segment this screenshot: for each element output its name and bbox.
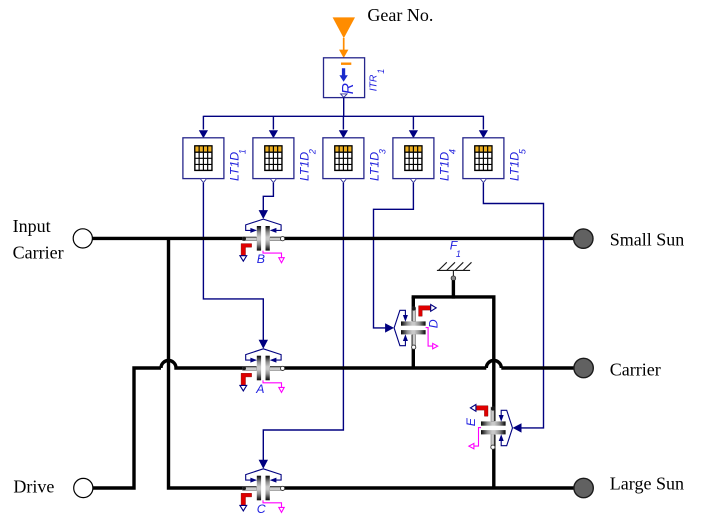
- shaft fixed stem: [452, 280, 455, 298]
- shaft drive to carrier: [93, 368, 161, 488]
- wire LT1D_4 to clutch D: [374, 183, 414, 328]
- wire LT1D_2 to clutch B: [263, 183, 273, 211]
- svg-text:Small Sun: Small Sun: [610, 230, 685, 250]
- fixed support F1: [437, 262, 472, 280]
- wire LT1D_3 to clutch C: [263, 183, 343, 460]
- svg-text:ITR1: ITR1: [369, 69, 387, 92]
- bus arrowheads into table blocks: [199, 130, 208, 138]
- shaft carrier line with hops: [161, 361, 574, 368]
- svg-text:LT1D3: LT1D3: [367, 149, 387, 181]
- table block LT1D_2: [253, 138, 294, 183]
- clutch A: [240, 340, 285, 393]
- svg-text:A: A: [255, 382, 264, 396]
- svg-text:C: C: [257, 502, 266, 516]
- shaft bridge right leg through clutch E: [492, 297, 495, 488]
- svg-text:LT1D1: LT1D1: [227, 149, 247, 181]
- svg-text:1: 1: [456, 249, 461, 259]
- svg-text:Large Sun: Large Sun: [610, 473, 684, 493]
- svg-text:D: D: [426, 319, 440, 328]
- wire LT1D_1 to clutch A: [203, 183, 263, 340]
- shaft branch from input carrier down to large sun: [169, 238, 575, 488]
- svg-text:LT1D2: LT1D2: [297, 149, 317, 181]
- clutch E: [469, 405, 522, 450]
- table block LT1D_3: [323, 138, 364, 183]
- svg-text:Drive: Drive: [13, 477, 54, 497]
- svg-text:B: B: [257, 252, 265, 266]
- connector large sun flange: [574, 478, 593, 497]
- svg-text:LT1D4: LT1D4: [437, 149, 457, 181]
- clutch D: [385, 305, 438, 350]
- clutch B: [240, 210, 285, 263]
- wire ITR output bus: [203, 97, 483, 129]
- shaft input carrier / small sun: [93, 237, 575, 240]
- gear number input connector: [333, 17, 355, 38]
- svg-text:E: E: [464, 417, 478, 426]
- connector drive flange: [74, 478, 93, 497]
- connector carrier flange: [574, 358, 593, 377]
- table block LT1D_4: [393, 138, 434, 183]
- shaft bridge: [412, 295, 496, 298]
- shaft bridge left leg through clutch D: [412, 297, 415, 368]
- connector small sun flange: [574, 229, 593, 248]
- table block LT1D_5: [463, 138, 504, 183]
- svg-text:LT1D5: LT1D5: [507, 148, 527, 181]
- wire LT1D_5 to clutch E: [483, 183, 543, 428]
- svg-text:Carrier: Carrier: [13, 243, 64, 263]
- svg-text:Gear No.: Gear No.: [367, 5, 433, 25]
- table block LT1D_1: [183, 138, 224, 183]
- wire gear input to ITR: [343, 38, 345, 51]
- svg-text:R: R: [340, 83, 357, 94]
- svg-text:Input: Input: [13, 216, 51, 236]
- connector input carrier flange: [73, 229, 92, 248]
- svg-text:Carrier: Carrier: [610, 359, 661, 379]
- converter block U1 ITR: [324, 58, 365, 98]
- clutch C: [240, 460, 285, 513]
